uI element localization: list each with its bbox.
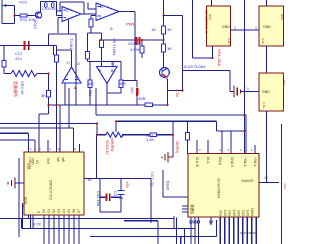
svg-text:A-D+: A-D+ — [262, 102, 266, 109]
connector CON1 — [207, 6, 231, 46]
wire long h115 — [96, 88, 246, 154]
resistor R10 — [55, 55, 59, 62]
wire signal bus y40 — [101, 39, 164, 41]
resistor R3 — [162, 26, 166, 34]
wire DREQ — [163, 170, 188, 197]
op-amp U1D — [97, 67, 118, 84]
resistor R5 — [89, 19, 93, 27]
svg-text:D6: D6 — [72, 209, 76, 213]
svg-text:TL084: TL084 — [69, 38, 74, 50]
svg-text:U9 TL084: U9 TL084 — [112, 38, 117, 56]
capacitor C15 — [52, 2, 55, 9]
svg-text:10: 10 — [264, 176, 268, 180]
wire cap pair frame — [100, 179, 121, 213]
svg-text:Vref: Vref — [46, 158, 50, 164]
svg-text:D3: D3 — [57, 209, 61, 213]
svg-text:4.99K: 4.99K — [130, 47, 141, 52]
pin number text — [30, 147, 253, 152]
connector CON2 — [259, 6, 284, 46]
svg-text:GP1: GP1 — [246, 209, 250, 216]
svg-text:DI-A: DI-A — [206, 157, 210, 164]
IC U2 LCD1602 — [24, 152, 84, 215]
svg-text:30B: 30B — [138, 96, 145, 101]
ground G3 — [8, 178, 15, 189]
wire R6 down — [101, 48, 103, 67]
svg-text:C52 LCD1602: C52 LCD1602 — [49, 180, 53, 200]
wire CON2 top pin — [266, 0, 268, 6]
op-amp U1E up — [62, 67, 81, 83]
wire left drop pair — [19, 158, 24, 237]
svg-text:VCC3.3V: VCC3.3V — [105, 140, 109, 155]
transistor Q2 — [35, 12, 41, 19]
svg-text:D: D — [111, 61, 114, 66]
op-amp U1C — [62, 7, 81, 22]
wire vertical x163 — [163, 0, 165, 69]
wire CON3 bottom pin — [266, 111, 268, 183]
wire U1D output — [107, 84, 121, 106]
capacitor C13 — [45, 2, 48, 9]
svg-text:VOL-3DA: VOL-3DA — [217, 49, 222, 66]
CON internals red — [208, 14, 286, 109]
svg-text:3B1: 3B1 — [88, 90, 92, 96]
resistor R14 — [150, 133, 157, 136]
U3 internals — [166, 157, 257, 216]
svg-text:3K: 3K — [167, 46, 172, 51]
svg-text:GND: GND — [263, 25, 271, 29]
text labels blue — [15, 0, 206, 227]
svg-text:104: 104 — [130, 87, 134, 93]
svg-text:A-D+: A-D+ — [261, 38, 265, 45]
svg-text:LHT3: LHT3 — [191, 205, 195, 213]
svg-text:D0: D0 — [42, 209, 46, 213]
wire U1C feedback — [60, 2, 84, 14]
svg-text:47u: 47u — [15, 56, 22, 61]
wire to box1 pin — [193, 0, 213, 58]
svg-text:D1: D1 — [47, 209, 51, 213]
resistor R12 — [88, 80, 92, 88]
resistor R7 — [140, 46, 144, 53]
svg-text:C82: C82 — [242, 210, 246, 216]
capacitor C21 polarized — [136, 37, 139, 45]
IC pin label texts — [222, 25, 287, 235]
svg-text:C83: C83 — [237, 210, 241, 216]
wire cap branch — [141, 40, 143, 46]
resistor R15 — [145, 103, 153, 107]
wire far right vertical — [281, 124, 283, 244]
wire G2 up — [172, 121, 174, 157]
wire bottom bus h221 — [124, 220, 158, 222]
svg-text:VR3 1K: VR3 1K — [20, 81, 25, 95]
resistor R9 — [47, 91, 51, 98]
IC U3 VS1003 — [188, 154, 259, 218]
resistor R6 — [100, 40, 104, 48]
wire verticals upper — [68, 88, 70, 128]
capacitor C22 polarized — [136, 88, 139, 95]
wire R9 down — [39, 97, 49, 114]
svg-text:1: 1 — [247, 87, 249, 91]
wire G1 to CON3 — [230, 91, 259, 93]
resistor R13 — [119, 80, 123, 88]
resistor R5b — [86, 52, 90, 60]
svg-text:1.4K: 1.4K — [146, 137, 155, 142]
svg-text:C15: C15 — [50, 6, 58, 11]
svg-text:CLK IN: CLK IN — [195, 157, 199, 168]
svg-text:36K: 36K — [87, 81, 94, 86]
svg-text:+5M-A: +5M-A — [253, 157, 257, 167]
wire U2 top pins — [29, 105, 80, 152]
svg-text:GP3: GP3 — [233, 209, 237, 216]
wire U3 right pin 10 — [259, 182, 279, 184]
svg-text:4.3V: 4.3V — [283, 183, 286, 189]
svg-text:Vss003F: Vss003F — [241, 179, 254, 183]
svg-text:InB: InB — [61, 157, 65, 162]
svg-text:C31: C31 — [113, 191, 118, 199]
wire resistor to Q2 — [27, 15, 36, 17]
svg-text:1.5M C84: 1.5M C84 — [28, 157, 32, 170]
wire Q3 emitter 4.3V — [167, 79, 183, 106]
wire U1B output — [119, 12, 135, 81]
svg-text:WR/RD: WR/RD — [110, 138, 115, 152]
wire R10 — [57, 46, 72, 153]
svg-text:GND: GND — [24, 196, 28, 204]
svg-text:P83: P83 — [228, 210, 232, 216]
wire base feed — [15, 15, 21, 17]
svg-text:GND: GND — [222, 25, 230, 29]
wire U1E apex — [65, 34, 76, 106]
wire CON2 bottom pin — [266, 46, 268, 73]
svg-text:MOM: MOM — [251, 208, 255, 216]
svg-text:C13: C13 — [42, 6, 50, 11]
wire bus h140 — [0, 139, 35, 141]
svg-text:16: 16 — [87, 177, 92, 182]
pin circles U3 — [190, 221, 212, 223]
svg-text:3K: 3K — [167, 27, 172, 32]
wire x163 to x182 — [164, 16, 183, 91]
U2 internals — [24, 157, 81, 213]
wire CON1 top pin — [211, 0, 213, 6]
ground G2 — [162, 152, 173, 163]
svg-text:220uF: 220uF — [128, 41, 140, 46]
wire h121 — [116, 121, 217, 132]
net label row — [49, 20, 77, 35]
wire B input resistor — [88, 3, 96, 20]
wire bottom bus h217 — [0, 218, 174, 220]
transistor Q3 — [160, 68, 170, 78]
wire R16 leads — [187, 121, 189, 153]
wire opamp C input feed — [57, 11, 63, 33]
wire top-left supply loop — [2, 0, 15, 24]
wire bus h133 — [0, 132, 29, 134]
wire R7 down — [141, 53, 143, 58]
svg-text:D2: D2 — [52, 209, 56, 213]
svg-text:3K: 3K — [41, 93, 46, 98]
wire h131 right — [217, 130, 245, 132]
wire R13 — [123, 81, 137, 88]
connector CON3 — [259, 73, 284, 111]
svg-text:D: D — [77, 61, 80, 66]
wire long right vertical — [244, 0, 246, 131]
svg-text:R8A: R8A — [208, 14, 212, 20]
wire under B — [101, 33, 103, 40]
wire to pot — [4, 67, 11, 74]
svg-text:1K: 1K — [151, 27, 156, 32]
wire bus h123 — [0, 123, 97, 125]
svg-text:VCC: VCC — [19, 0, 28, 5]
wire U2 right pin — [84, 179, 151, 224]
svg-text:D5: D5 — [67, 209, 71, 213]
svg-text:VCC 3V: VCC 3V — [150, 172, 155, 187]
ground G1 — [234, 86, 240, 98]
svg-text:C: C — [66, 8, 69, 13]
svg-text:PWM: PWM — [126, 22, 136, 27]
svg-text:DM-A: DM-A — [218, 157, 222, 166]
svg-text:GND-V: GND-V — [230, 157, 234, 168]
svg-text:GP2: GP2 — [224, 209, 228, 216]
svg-text:E: E — [37, 211, 41, 213]
resistor R16 — [186, 133, 190, 141]
wire left pin stubs U3 — [182, 206, 188, 212]
wire U3 bottom pins — [191, 217, 256, 244]
wire zigzag feed — [97, 124, 107, 179]
potentiometer VR3 zigzag — [11, 71, 37, 77]
wire pot to node — [37, 46, 54, 91]
svg-text:VB(PU): VB(PU) — [175, 141, 179, 153]
wire filter h105 — [49, 104, 168, 106]
svg-text:A U9 TL084: A U9 TL084 — [184, 64, 206, 69]
svg-text:+5M-A: +5M-A — [243, 157, 247, 167]
svg-text:36K: 36K — [119, 81, 126, 86]
wire U3 top pins — [197, 131, 255, 154]
wire hook right — [183, 71, 231, 92]
svg-text:B: B — [100, 4, 103, 9]
wire r14 line — [122, 134, 173, 136]
resistor R11 — [20, 14, 27, 17]
svg-text:P02: P02 — [219, 210, 223, 216]
svg-text:4.3V: 4.3V — [175, 89, 180, 98]
svg-text:R8A: R8A — [282, 80, 286, 86]
wire bottom bus h228 — [22, 228, 195, 230]
svg-text:MXBUX3V 03: MXBUX3V 03 — [217, 178, 221, 198]
svg-text:A: A — [110, 26, 113, 31]
svg-text:1: 1 — [255, 26, 257, 30]
resistor R4 — [162, 44, 166, 52]
svg-text:GND: GND — [262, 90, 270, 94]
resistor zigzag R17 — [106, 132, 123, 137]
capacitor C30 — [105, 194, 107, 202]
wire R5 to bus — [88, 27, 102, 62]
svg-text:DREQ: DREQ — [166, 180, 170, 190]
wire C22 down — [136, 95, 138, 105]
svg-text:17: 17 — [66, 60, 71, 65]
svg-text:1: 1 — [234, 26, 236, 30]
wire U1D feedback — [88, 62, 122, 81]
svg-text:C30 10u: C30 10u — [96, 191, 101, 206]
wire pulldown loop — [22, 215, 31, 229]
capacitor C31 — [118, 191, 125, 199]
svg-text:D7: D7 — [77, 209, 81, 213]
wire Q2 collector up — [40, 2, 42, 13]
op-amp U1B — [96, 3, 119, 21]
wire U1C output — [81, 13, 96, 15]
resistor R8 — [2, 61, 6, 68]
wire bottom bus h236 — [90, 220, 217, 237]
svg-text:R8A: R8A — [280, 14, 284, 20]
wire cap box top — [41, 2, 57, 16]
wire stub emitter — [48, 34, 50, 46]
svg-text:D4: D4 — [62, 209, 66, 213]
wire CON1-CON2 link — [231, 29, 260, 31]
arrow mark — [5, 4, 8, 7]
wire G3 to U2 — [15, 182, 24, 184]
svg-text:A-D+: A-D+ — [227, 38, 231, 45]
svg-text:3L 3C 3B 3A: 3L 3C 3B 3A — [240, 231, 256, 235]
text labels red — [13, 10, 222, 189]
wire U2 bottom pins — [29, 215, 80, 244]
wire right bottom drops — [144, 216, 185, 244]
svg-text:音量调节: 音量调节 — [13, 81, 19, 97]
svg-text:+5V: +5V — [125, 181, 130, 189]
wire left rail horizontal — [0, 45, 57, 47]
wire bus h128 — [0, 127, 74, 129]
svg-text:4.7K: 4.7K — [33, 222, 42, 227]
svg-text:9012: 9012 — [33, 20, 38, 30]
wire left rail vertical — [3, 46, 5, 61]
wire R12 link — [89, 62, 91, 106]
svg-text:V0: V0 — [35, 160, 39, 164]
wire C30 leads — [100, 196, 121, 198]
capacitor C17 — [24, 41, 26, 50]
